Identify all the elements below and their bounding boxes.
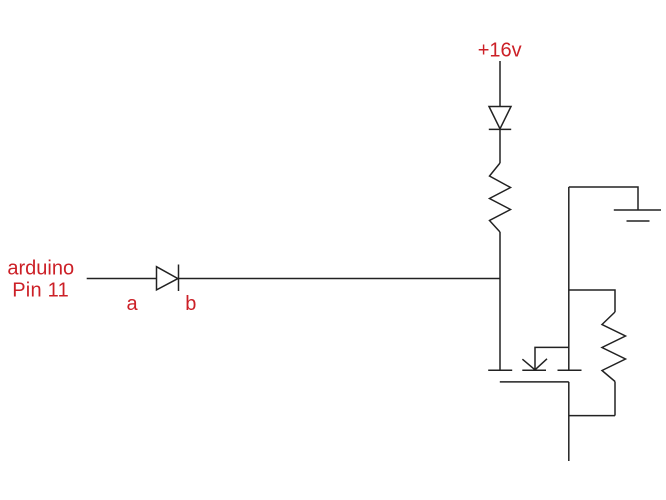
svg-text:a: a [127, 293, 139, 315]
svg-text:Pin 11: Pin 11 [12, 280, 68, 302]
svg-text:arduino: arduino [7, 258, 74, 280]
svg-text:+16v: +16v [478, 39, 522, 61]
svg-text:b: b [185, 293, 196, 315]
